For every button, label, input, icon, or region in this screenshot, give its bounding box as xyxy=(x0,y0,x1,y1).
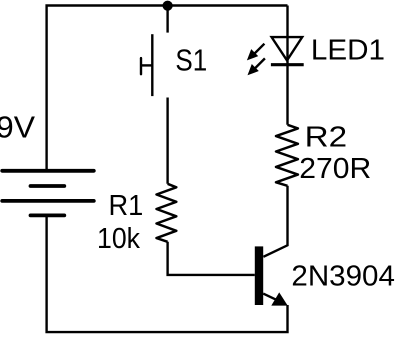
svg-text:9V: 9V xyxy=(0,111,36,145)
battery plate long 2 xyxy=(2,199,94,203)
wire bottom rail from battery minus to emitter xyxy=(47,215,288,332)
resistor R2 zigzag xyxy=(276,125,298,186)
transistor emitter line xyxy=(263,294,278,301)
wire R2 bottom lead (collector) xyxy=(263,186,287,257)
battery short plate 2 (-) xyxy=(31,213,65,217)
resistor R1 zigzag xyxy=(157,184,177,242)
wire switch top terminal xyxy=(166,6,168,33)
svg-text:R2: R2 xyxy=(305,122,348,154)
wire top rail and left side down to battery xyxy=(47,6,288,170)
node A junction dot xyxy=(163,1,173,11)
svg-text:R1: R1 xyxy=(109,190,144,222)
transistor emitter arrowhead xyxy=(271,292,287,305)
svg-text:S1: S1 xyxy=(175,43,207,77)
wire LED branch vertical xyxy=(286,6,288,125)
LED1 cathode bar xyxy=(271,63,304,66)
wire switch bottom terminal to R1 xyxy=(166,98,168,184)
battery B1 plate long top (+) xyxy=(2,169,94,173)
svg-text:LED1: LED1 xyxy=(311,35,385,67)
svg-text:270R: 270R xyxy=(299,153,371,185)
LED LED1 triangle xyxy=(272,37,303,60)
svg-text:2N3904: 2N3904 xyxy=(291,261,395,293)
transistor Q1 base bar xyxy=(255,246,263,305)
svg-text:10k: 10k xyxy=(97,223,141,255)
LED1 emission arrow 1 xyxy=(247,44,265,61)
battery short plate 1 xyxy=(31,184,65,188)
LED1 emission arrow 2 xyxy=(248,58,265,75)
wire R1 bottom lead and base wire xyxy=(168,242,255,275)
switch S1 pushbutton xyxy=(141,34,152,96)
